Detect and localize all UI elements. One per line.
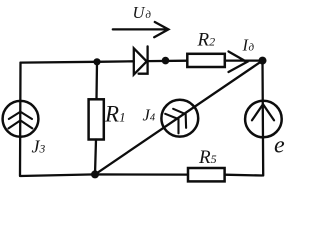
svg-text:J3: J3 — [32, 137, 46, 157]
svg-text:J4: J4 — [143, 106, 156, 125]
wire top-left segment — [21, 61, 134, 62]
current source J3 — [3, 101, 39, 137]
svg-text:R1: R1 — [104, 102, 126, 127]
resistor R1 — [89, 99, 104, 139]
node dot B (after diode) — [162, 57, 170, 65]
wire R1 top lead — [95, 62, 98, 100]
wire diagonal J4 branch — [95, 61, 263, 175]
wire bottom — [21, 174, 263, 176]
node dot A (R1 top) — [93, 58, 100, 65]
resistor R5 — [188, 168, 225, 181]
current source J4 — [161, 100, 198, 137]
node dot C (top right) — [259, 57, 267, 65]
EMF source e — [245, 101, 282, 138]
svg-text:Iд: Iд — [242, 36, 255, 55]
svg-text:R5: R5 — [198, 147, 217, 168]
wire right edge — [261, 61, 264, 176]
wire R1 bottom lead — [95, 140, 96, 175]
svg-text:Uд: Uд — [133, 3, 152, 22]
svg-text:e: e — [274, 133, 285, 159]
resistor R2 — [187, 54, 225, 67]
voltage arrow Ud — [113, 22, 169, 37]
current arrow Id — [229, 52, 247, 73]
zener diode VD — [134, 46, 148, 74]
svg-text:R2: R2 — [197, 30, 216, 51]
wire left edge — [19, 63, 22, 176]
node dot D (bottom) — [91, 170, 99, 178]
wire R2 to node — [225, 59, 263, 61]
wire diode to R2 — [148, 60, 187, 63]
